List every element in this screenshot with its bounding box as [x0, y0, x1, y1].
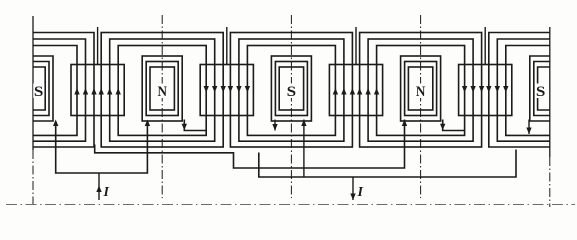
pole core N1 rect 1 — [142, 56, 182, 121]
lead stub N2 right (down arrow) — [440, 120, 465, 131]
pole core N1 rect 2 — [146, 62, 178, 116]
flux arrows in bundle 3 (up) — [333, 88, 380, 95]
armature axis dash-dot line — [6, 204, 575, 206]
pole core S1 rect 3 (half) — [33, 67, 45, 110]
lead stub S3 left (down arrow) — [526, 120, 531, 135]
coil lead-in stub above box B4 — [484, 27, 486, 65]
field coil box B4 — [459, 65, 512, 116]
flux loop N2-3 around pole N2 — [377, 46, 465, 136]
pole letter S (S1) — [33, 84, 44, 100]
flux loop N1-1 around pole N1 — [101, 33, 223, 148]
lead stub S2 left (down arrow) — [272, 120, 277, 131]
field coil box B3 — [329, 65, 382, 116]
pole core N2 rect 1 — [401, 56, 441, 121]
pole core S3 rect 3 (half) — [538, 67, 550, 110]
field coil box B2 — [200, 65, 253, 116]
flux loop S1-1 (right half, cut at left edge) — [33, 33, 94, 148]
series connector L2 (bottom line) — [259, 150, 516, 178]
center line pole N1 — [161, 15, 163, 198]
coil lead-in stub above box B3 — [355, 27, 357, 65]
pole core S2 rect 3 — [279, 67, 303, 110]
flux loop S3-1 (left half, cut at right edge) — [489, 33, 550, 148]
flux loop N2-2 around pole N2 — [368, 39, 473, 141]
pole core S1 rect 2 (half) — [33, 62, 49, 116]
flux arrows in bundle 1 (up) — [74, 88, 121, 95]
pole letter S (S2) — [286, 84, 297, 100]
svg-text:N: N — [416, 84, 426, 100]
flux loop S2-2 around pole S2 — [239, 39, 344, 141]
field coil box B1 — [71, 65, 124, 116]
current feed 2 (down) — [350, 177, 355, 200]
lead arm S2 right (up arrow) — [301, 120, 306, 178]
pole core S1 rect 1 (half) — [33, 56, 53, 121]
pole core N2 rect 3 — [408, 67, 432, 110]
svg-text:I: I — [357, 185, 364, 200]
pole letter N (N1) — [157, 84, 168, 100]
svg-text:S: S — [34, 84, 44, 100]
current feed 1 (up) — [96, 173, 101, 200]
flux loop S3-3 (left half, cut at right edge) — [506, 46, 550, 136]
pole core N1 rect 3 — [150, 67, 174, 110]
center line pole S1 (left cut edge) — [32, 16, 34, 204]
center line pole S2 — [290, 15, 292, 198]
svg-text:S: S — [536, 84, 546, 100]
svg-text:N: N — [157, 84, 167, 100]
pole core S3 rect 2 (half) — [534, 62, 550, 116]
label I (left feed) — [103, 185, 110, 200]
flux loop S2-3 around pole S2 — [247, 46, 335, 136]
flux loop N2-1 around pole N2 — [360, 33, 482, 148]
pole core N2 rect 2 — [405, 62, 437, 116]
svg-text:I: I — [103, 185, 110, 200]
series connector L1 with N2 left arm (up arrow) — [95, 120, 408, 169]
center line pole N2 — [420, 15, 422, 198]
flux loop S1-3 (right half, cut at left edge) — [33, 46, 77, 136]
pole core S2 rect 2 — [275, 62, 307, 116]
svg-text:S: S — [287, 84, 297, 100]
flux loop N1-2 around pole N1 — [110, 39, 215, 141]
flux loop S1-2 (right half, cut at left edge) — [33, 39, 86, 141]
flux arrows in bundle 4 (down) — [462, 86, 509, 93]
pole letter N (N2) — [415, 84, 426, 100]
pole core S2 rect 1 — [271, 56, 311, 121]
coil lead-in stub above box B1 — [97, 27, 99, 65]
flux loop S3-2 (left half, cut at right edge) — [497, 39, 550, 141]
center line pole S3 (right cut edge) — [549, 27, 551, 207]
coil lead-in stub above box B2 — [226, 27, 228, 65]
flux loop S2-1 around pole S2 — [230, 33, 352, 148]
flux arrows in bundle 2 (down) — [204, 86, 251, 93]
label I (right feed) — [357, 185, 364, 200]
pole letter S (S3) — [535, 84, 546, 100]
lead stub N1 right (down arrow) — [182, 120, 206, 131]
coil lead bracket (S1-N1) with up arrows — [53, 120, 150, 174]
flux loop N1-3 around pole N1 — [118, 46, 206, 136]
pole core S3 rect 1 (half) — [530, 56, 550, 121]
